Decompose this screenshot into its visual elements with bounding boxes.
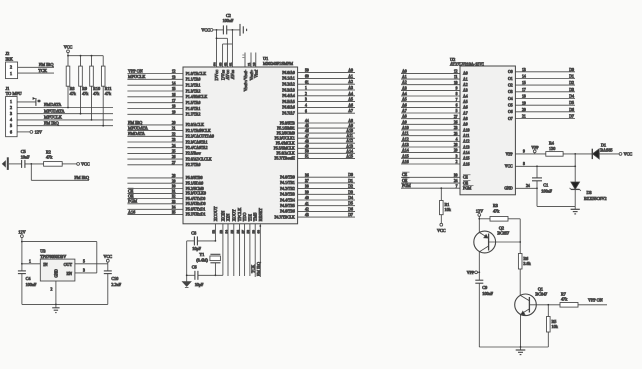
svg-text:P1.1/TA0: P1.1/TA0 (186, 78, 201, 82)
svg-text:O4: O4 (508, 97, 513, 101)
svg-text:VCC: VCC (505, 165, 513, 169)
ground symbol (516, 347, 526, 355)
wire U1 D1 stub (298, 182, 355, 184)
svg-text:*: * (38, 100, 41, 106)
svg-text:47k: 47k (561, 297, 568, 302)
junction 12V/EN loop (21, 241, 23, 243)
junction 12V/IN (21, 263, 23, 265)
svg-text:18: 18 (172, 105, 176, 109)
wire U2 PGM (401, 187, 460, 189)
wire U1 A15 stub (298, 157, 355, 159)
svg-text:GND: GND (55, 269, 59, 277)
svg-text:7: 7 (456, 98, 458, 102)
svg-text:16: 16 (172, 93, 176, 97)
svg-text:OUT: OUT (64, 262, 73, 267)
svg-text:47k: 47k (105, 91, 112, 96)
wire U2 O2 to D2 (515, 84, 575, 86)
svg-text:P6.7/A7: P6.7/A7 (282, 112, 295, 116)
terminal circle VCC (106, 259, 109, 262)
wire (479, 218, 490, 220)
wire U1 pin 19 (127, 113, 183, 115)
svg-text:D1: D1 (569, 75, 574, 79)
svg-text:XOUT: XOUT (231, 209, 236, 221)
MCU U1 M30240F1SMPM (183, 56, 298, 224)
svg-text:47k: 47k (82, 91, 89, 96)
svg-text:O3: O3 (508, 90, 513, 94)
wire U1 pin 32 (127, 198, 183, 200)
svg-text:64: 64 (213, 62, 217, 66)
resistor R11 (101, 66, 112, 96)
wire (80, 86, 82, 114)
wire (25, 163, 44, 165)
svg-text:IN: IN (43, 262, 47, 267)
terminal 12V (30, 131, 33, 134)
svg-text:A11: A11 (463, 134, 469, 138)
svg-text:13: 13 (522, 68, 526, 72)
wire (536, 166, 538, 178)
diode D1 BAS85 (592, 143, 612, 160)
wire VCC rail (68, 55, 103, 57)
wire (440, 188, 442, 200)
wire U2 A6 (401, 106, 460, 108)
svg-text:C6: C6 (192, 264, 197, 269)
wire node to zener (574, 154, 576, 182)
svg-text:P5.1/BM01: P5.1/BM01 (277, 126, 295, 130)
wire U1 A14 stub (298, 152, 355, 154)
wire U2 OE (401, 182, 460, 184)
svg-text:OE: OE (463, 181, 469, 185)
wire U2 O7 to D7 (515, 118, 575, 120)
svg-text:A2: A2 (463, 83, 468, 87)
transistor Q1 BC847 (NPN) (515, 286, 548, 315)
svg-text:D3: D3 (587, 190, 592, 195)
svg-text:14: 14 (172, 81, 176, 85)
svg-text:A9: A9 (348, 124, 353, 128)
svg-text:5: 5 (10, 123, 12, 128)
svg-text:3: 3 (10, 111, 12, 116)
svg-text:24: 24 (454, 179, 458, 183)
svg-text:O7: O7 (508, 117, 513, 121)
svg-text:A9: A9 (463, 123, 468, 127)
svg-text:O6: O6 (508, 110, 513, 114)
svg-text:P2.1/TA0NCLK: P2.1/TA0NCLK (186, 129, 211, 133)
svg-text:A16: A16 (402, 160, 409, 164)
svg-text:VCC: VCC (103, 254, 112, 259)
wire U1 pin 28 (127, 177, 183, 179)
svg-text:2: 2 (10, 105, 12, 110)
svg-text:P5.3/UCLK1: P5.3/UCLK1 (275, 137, 295, 141)
svg-text:O1: O1 (508, 77, 513, 81)
terminal VCC (77, 163, 80, 166)
wire DVcc pin (216, 30, 218, 67)
svg-text:J2: J2 (6, 51, 10, 56)
wire OUT pin 5 (75, 263, 108, 265)
capacitor C8 (191, 230, 201, 251)
svg-text:A5: A5 (463, 100, 468, 104)
wire Q2 collector to VPP (478, 252, 480, 272)
wire U2 A16 (401, 163, 460, 165)
connector J2 (6, 51, 18, 78)
junction VCC/zener line (574, 165, 576, 167)
wire U1 pin 30 (127, 188, 183, 190)
wire U2 VPP pin (515, 153, 545, 155)
svg-text:D5: D5 (569, 101, 574, 105)
wire U1 bottom pin 52 (214, 224, 216, 241)
svg-text:A14: A14 (346, 149, 353, 153)
svg-text:P5.7/TBoutH: P5.7/TBoutH (274, 157, 295, 161)
svg-text:49: 49 (305, 144, 309, 148)
svg-text:19: 19 (172, 110, 176, 114)
wire VCC link (217, 37, 228, 39)
wire J1.6 to 12V (17, 131, 30, 133)
svg-text:PGM: PGM (463, 187, 472, 191)
wire U1 pin 17 (127, 102, 183, 104)
junction crystal/C6 net (215, 274, 217, 276)
wire U2 A9 (401, 123, 460, 125)
svg-text:A14: A14 (463, 151, 470, 155)
wire (62, 163, 76, 165)
wire U1 pin 16 (127, 96, 183, 98)
svg-text:27: 27 (454, 115, 458, 119)
svg-text:P1.4/BMCLK: P1.4/BMCLK (186, 95, 208, 99)
wire Q1 base (529, 304, 560, 306)
wire U2 A4 (401, 95, 460, 97)
terminal circle VCC (67, 50, 70, 53)
svg-text:44: 44 (305, 119, 309, 123)
wire U1 pin 25 (127, 152, 183, 154)
wire 12V vertical (21, 238, 23, 271)
terminal circle VCC (210, 29, 213, 32)
svg-text:34: 34 (172, 205, 176, 209)
svg-text:1: 1 (305, 86, 307, 90)
svg-text:6: 6 (10, 129, 12, 134)
svg-text:10pF: 10pF (195, 282, 204, 287)
wire MPUDATA (17, 113, 113, 115)
svg-text:VPP ON: VPP ON (128, 68, 143, 73)
junction R8 to bus (67, 107, 69, 109)
svg-text:A0: A0 (463, 72, 468, 76)
svg-text:19: 19 (522, 101, 526, 105)
svg-text:D3: D3 (348, 190, 353, 194)
svg-text:A12: A12 (402, 137, 409, 141)
svg-text:O0: O0 (508, 70, 513, 74)
wire (214, 263, 216, 276)
svg-text:58: 58 (246, 230, 250, 234)
wire (563, 153, 592, 155)
svg-text:62: 62 (224, 62, 228, 66)
wire U2 O4 to D4 (515, 98, 575, 100)
svg-text:24: 24 (526, 184, 530, 188)
svg-text:D2: D2 (348, 185, 353, 189)
svg-text:D2: D2 (569, 81, 574, 85)
svg-text:23: 23 (454, 126, 458, 130)
resistor R9 (79, 66, 90, 96)
svg-text:P2.6/ADCLCLK: P2.6/ADCLCLK (186, 157, 212, 161)
wire U2 O3 to D3 (515, 91, 575, 93)
svg-text:FM IRQ: FM IRQ (39, 62, 55, 67)
svg-text:55: 55 (230, 230, 234, 234)
wire (67, 86, 69, 107)
svg-text:P6.5/A5: P6.5/A5 (282, 100, 295, 104)
svg-text:4: 4 (456, 137, 458, 141)
capacitor C2 (223, 13, 234, 35)
svg-text:61: 61 (229, 62, 233, 66)
wire (21, 274, 23, 305)
svg-text:7: 7 (456, 184, 458, 188)
svg-text:C2: C2 (226, 13, 231, 18)
svg-text:47: 47 (305, 134, 309, 138)
svg-text:P5.7/URxD1: P5.7/URxD1 (186, 213, 206, 217)
svg-text:A11: A11 (402, 132, 409, 136)
wire U1 A5 stub (298, 101, 355, 103)
svg-text:18: 18 (522, 95, 526, 99)
svg-text:A4: A4 (463, 94, 468, 98)
wire U1 pin 12 (127, 73, 183, 75)
svg-text:21: 21 (522, 115, 526, 119)
svg-text:A16: A16 (463, 162, 470, 166)
wire U2 A13 (401, 146, 460, 148)
svg-text:37: 37 (305, 179, 309, 183)
svg-text:P5.0/STB0: P5.0/STB0 (186, 176, 203, 180)
resistor R8 (66, 66, 77, 96)
junction R4/D1/D3 (574, 153, 576, 155)
svg-text:28: 28 (172, 174, 176, 178)
wire U1 pin 27 (127, 164, 183, 166)
resistor R4 (546, 141, 563, 157)
wire (187, 274, 195, 276)
svg-text:33: 33 (172, 200, 176, 204)
svg-text:12V: 12V (18, 229, 25, 234)
wire (198, 274, 223, 276)
svg-text:56: 56 (236, 230, 240, 234)
svg-text:39: 39 (305, 190, 309, 194)
svg-text:A7: A7 (348, 109, 353, 113)
svg-text:O5: O5 (508, 104, 513, 108)
svg-text:25: 25 (454, 132, 458, 136)
wire U2 A1 (401, 78, 460, 80)
svg-text:P2.3/CA0TA1: P2.3/CA0TA1 (186, 140, 208, 144)
wire J1.1 to key mark (17, 101, 36, 103)
svg-text:10k: 10k (552, 324, 559, 329)
svg-text:P5.4/UTxD0: P5.4/UTxD0 (186, 197, 206, 201)
svg-text:D7: D7 (569, 115, 574, 119)
svg-text:OE: OE (128, 193, 134, 198)
svg-text:P6.6/A6: P6.6/A6 (282, 106, 295, 110)
svg-text:11: 11 (454, 75, 458, 79)
svg-text:1: 1 (29, 260, 31, 264)
svg-text:60: 60 (257, 230, 261, 234)
wire U1 bottom pin 56 (239, 224, 241, 276)
svg-text:XCOUT: XCOUT (213, 206, 218, 221)
wire to VPP ON (578, 304, 607, 306)
wire U1 A8 stub (298, 122, 355, 124)
svg-text:VPP: VPP (467, 270, 475, 275)
svg-text:EN: EN (67, 271, 73, 276)
junction 12V/R3 (478, 218, 480, 220)
svg-text:A10: A10 (346, 129, 353, 133)
svg-text:P2.4/CA0TA2: P2.4/CA0TA2 (186, 146, 208, 150)
capacitor C4 (18, 271, 37, 287)
svg-text:53: 53 (219, 230, 223, 234)
svg-text:A8: A8 (463, 117, 468, 121)
svg-text:FMDATA: FMDATA (44, 102, 62, 107)
svg-text:P6.2/A2: P6.2/A2 (282, 83, 295, 87)
svg-text:32: 32 (172, 195, 176, 199)
svg-text:17: 17 (172, 99, 176, 103)
svg-text:AVss: AVss (230, 70, 235, 80)
wire Q2 base to R3/R6 node (489, 241, 521, 243)
svg-text:26: 26 (172, 155, 176, 159)
svg-text:TPS76050DBV: TPS76050DBV (40, 254, 66, 259)
junction GND/C1 (536, 187, 538, 189)
wire (478, 283, 480, 347)
svg-text:A10: A10 (402, 126, 409, 130)
wire U1 bottom pin 53 (222, 224, 224, 275)
svg-text:17: 17 (522, 88, 526, 92)
svg-text:MPUDATA: MPUDATA (44, 108, 65, 113)
svg-text:P6.4/A4: P6.4/A4 (282, 94, 295, 98)
junction AVss branch (232, 29, 234, 31)
junction rail/ground (520, 346, 522, 348)
svg-text:51: 51 (305, 155, 309, 159)
wire U1 pin 15 (127, 90, 183, 92)
svg-text:P1.3/TA2: P1.3/TA2 (186, 89, 201, 93)
svg-text:A8: A8 (348, 119, 353, 123)
wire (508, 218, 520, 220)
resistor R7 (560, 291, 578, 307)
svg-text:A0: A0 (348, 69, 353, 73)
svg-text:MPUCLK: MPUCLK (44, 115, 63, 120)
svg-text:D4: D4 (348, 196, 353, 200)
wire U2 A10 (401, 129, 460, 131)
svg-text:15: 15 (522, 81, 526, 85)
svg-text:60: 60 (305, 75, 309, 79)
svg-text:P5.6/UTxD1: P5.6/UTxD1 (186, 208, 206, 212)
svg-text:Y1: Y1 (199, 252, 204, 257)
wire U2 O0 to D0 (515, 71, 575, 73)
svg-text:63: 63 (219, 62, 223, 66)
svg-text:8: 8 (456, 92, 458, 96)
svg-text:Vref: Vref (254, 69, 259, 78)
svg-text:5: 5 (83, 260, 85, 264)
svg-text:P1.5/TA0: P1.5/TA0 (186, 101, 201, 105)
wire U2 A11 (401, 135, 460, 137)
wire U1 pin 13 (127, 78, 183, 80)
junction R9 to bus (80, 113, 82, 115)
svg-text:Vref+/Vref-: Vref+/Vref- (243, 69, 248, 91)
wire 12V to Q2 emitter (478, 216, 480, 232)
svg-text:A3: A3 (463, 89, 468, 93)
wire U1 A6 stub (298, 106, 355, 108)
svg-text:A4: A4 (348, 92, 353, 96)
svg-text:P4.1/TB1: P4.1/TB1 (280, 181, 295, 185)
wire (107, 264, 109, 271)
svg-text:2: 2 (305, 92, 307, 96)
svg-text:P1.7/TA2: P1.7/TA2 (186, 113, 201, 117)
svg-text:P6.0/A0: P6.0/A0 (282, 71, 295, 75)
svg-text:A15: A15 (346, 154, 353, 158)
wire MPUCLK (17, 119, 113, 121)
svg-text:FM IRQ: FM IRQ (128, 120, 142, 125)
svg-text:P2.0/ACLK: P2.0/ACLK (186, 123, 205, 127)
svg-text:C1: C1 (543, 183, 548, 188)
junction C1 (536, 165, 538, 167)
svg-text:DVcc: DVcc (214, 70, 219, 81)
svg-text:A15: A15 (402, 154, 409, 158)
svg-text:38: 38 (305, 185, 309, 189)
wire (534, 153, 536, 154)
wire U1 A0 stub (298, 72, 355, 74)
svg-text:P5.4/MCLK: P5.4/MCLK (276, 142, 295, 146)
wire ground rail (186, 241, 188, 282)
wire U1 pin 20 (127, 124, 183, 126)
svg-text:D6: D6 (348, 207, 353, 211)
svg-text:A1: A1 (402, 75, 407, 79)
svg-text:A11: A11 (346, 134, 353, 138)
svg-text:47k: 47k (93, 91, 100, 96)
wire U2 A14 (401, 152, 460, 154)
wire U1 A12 stub (298, 142, 355, 144)
svg-text:D5: D5 (348, 202, 353, 206)
wire U2 A7 (401, 112, 460, 114)
svg-text:A5: A5 (402, 98, 407, 102)
wire U2 A2 (401, 84, 460, 86)
resistor R1 (440, 201, 452, 215)
junction rail/C6 (186, 274, 188, 276)
svg-text:47k: 47k (70, 91, 77, 96)
svg-text:12: 12 (172, 70, 176, 74)
wire bottom rail (479, 346, 548, 348)
wire U1 pin 22 (127, 135, 183, 137)
wire U1 A9 stub (298, 127, 355, 129)
Vref pin stubs (242, 53, 256, 68)
svg-text:A1: A1 (463, 77, 468, 81)
wire FM IRQ branch (31, 179, 89, 181)
svg-text:C9: C9 (482, 285, 487, 290)
wire U1 bottom pin 57 (244, 224, 246, 276)
wire (102, 56, 104, 66)
svg-text:VCC: VCC (201, 27, 210, 32)
svg-text:A10: A10 (463, 128, 470, 132)
svg-text:10pF: 10pF (192, 246, 201, 251)
wire U1 bottom pin 58 (249, 224, 251, 276)
svg-text:P5.5/SMCLK: P5.5/SMCLK (274, 147, 295, 151)
wire U2 A0 (401, 72, 460, 74)
junction on VCC rail (91, 55, 93, 57)
wire FM IRQ (17, 125, 113, 127)
svg-text:A12: A12 (463, 140, 470, 144)
svg-text:P4.6/TB6: P4.6/TB6 (280, 210, 295, 214)
wire U1 D0 stub (298, 176, 355, 178)
wire (67, 56, 69, 66)
svg-text:100nF: 100nF (541, 189, 552, 194)
svg-text:59: 59 (305, 69, 309, 73)
svg-text:57: 57 (241, 230, 245, 234)
svg-text:25: 25 (172, 150, 176, 154)
crystal Y1 (196, 252, 220, 263)
svg-text:48: 48 (305, 139, 309, 143)
svg-text:41: 41 (305, 202, 309, 206)
svg-text:TDO: TDO (242, 212, 247, 221)
junction C5/R2/FM IRQ (30, 163, 32, 165)
wire U1 bottom pin 54 (227, 224, 229, 276)
svg-text:P4.7/TBCLK: P4.7/TBCLK (274, 215, 295, 219)
wire U1 D3 stub (298, 193, 355, 195)
wire (536, 181, 538, 207)
svg-text:P4.5/TB5: P4.5/TB5 (280, 204, 295, 208)
ground symbol (earth triangle) (183, 282, 191, 288)
svg-text:10: 10 (454, 81, 458, 85)
